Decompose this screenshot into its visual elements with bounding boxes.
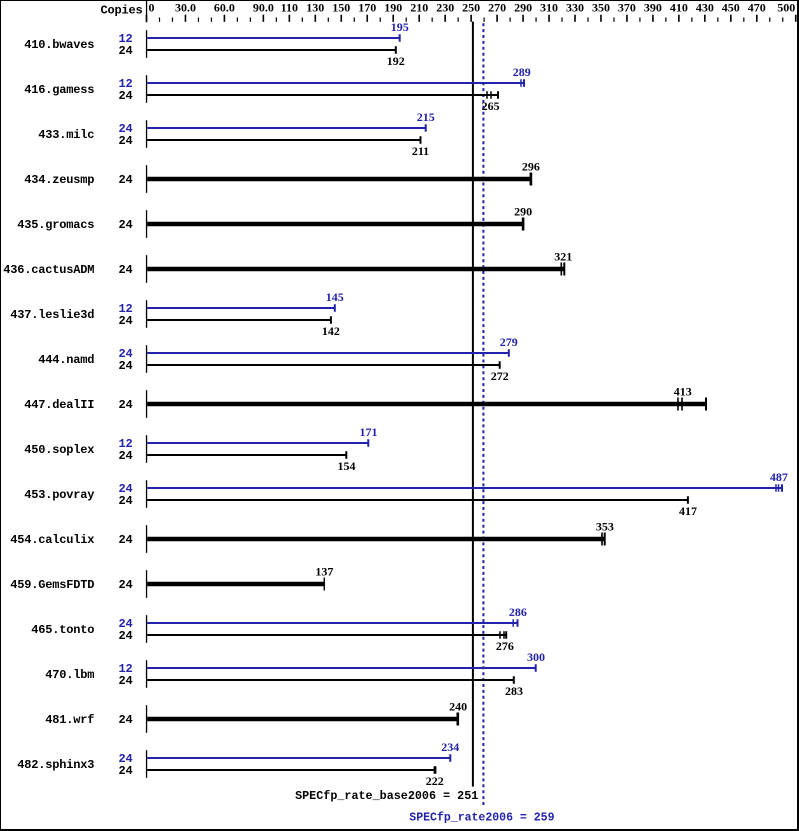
450.soplex copies label (base) [118, 449, 132, 463]
SPECfp_rate2006 = 259 dotted vertical reference line [482, 23, 484, 807]
svg-text:430: 430 [696, 1, 714, 15]
470.lbm base value label 283 [505, 684, 523, 698]
svg-text:276: 276 [496, 639, 514, 653]
416.gamess base bar (value 265) [147, 91, 499, 99]
svg-text:190: 190 [384, 1, 402, 15]
svg-text:417: 417 [679, 504, 697, 518]
444.namd peak value label 279 [500, 335, 518, 349]
453.povray base value label 417 [679, 504, 697, 518]
444.namd base bar (value 272) [147, 361, 501, 369]
435.gromacs copies label [118, 218, 132, 232]
svg-text:289: 289 [513, 65, 531, 79]
svg-text:24: 24 [118, 398, 132, 412]
Copies column header [100, 3, 142, 17]
410.bwaves base value label 192 [387, 54, 405, 68]
svg-text:487: 487 [770, 470, 788, 484]
svg-text:279: 279 [500, 335, 518, 349]
svg-text:416.gamess: 416.gamess [24, 83, 94, 97]
svg-text:350: 350 [592, 1, 610, 15]
svg-text:435.gromacs: 435.gromacs [17, 218, 94, 232]
svg-text:24: 24 [118, 263, 132, 277]
svg-text:24: 24 [118, 44, 132, 58]
svg-text:24: 24 [118, 629, 132, 643]
svg-text:390: 390 [644, 1, 662, 15]
436.cactusADM value label 321 [554, 250, 572, 264]
svg-text:450.soplex: 450.soplex [24, 443, 94, 457]
svg-text:482.sphinx3: 482.sphinx3 [17, 758, 94, 772]
svg-text:24: 24 [118, 494, 132, 508]
433.milc peak bar (value 215) [147, 124, 427, 132]
465.tonto peak bar (value 286) [147, 619, 518, 627]
svg-text:433.milc: 433.milc [38, 128, 94, 142]
410.bwaves peak value label 195 [391, 20, 409, 34]
465.tonto peak value label 286 [509, 605, 527, 619]
SPECfp_rate_base2006 total text [295, 789, 478, 803]
447.dealII base+peak bar (value 413) [147, 398, 707, 411]
svg-text:370: 370 [618, 1, 636, 15]
svg-text:142: 142 [322, 324, 340, 338]
410.bwaves copies label (peak) [118, 32, 132, 46]
benchmark label 435.gromacs [17, 218, 94, 232]
470.lbm copies label (peak) [118, 662, 132, 676]
433.milc start bracket [146, 120, 147, 148]
benchmark label 459.GemsFDTD [10, 578, 94, 592]
470.lbm peak value label 300 [527, 650, 545, 664]
benchmark label 482.sphinx3 [17, 758, 94, 772]
svg-text:450: 450 [722, 1, 740, 15]
svg-text:470.lbm: 470.lbm [45, 668, 94, 682]
axis zero tick (value 0) [146, 1, 147, 22]
470.lbm base bar (value 283) [147, 676, 515, 684]
svg-text:250: 250 [462, 1, 480, 15]
svg-text:24: 24 [118, 314, 132, 328]
465.tonto base bar (value 276) [147, 631, 507, 639]
svg-text:230: 230 [436, 1, 454, 15]
444.namd copies label (base) [118, 359, 132, 373]
410.bwaves base bar (value 192) [147, 46, 397, 54]
svg-text:171: 171 [360, 425, 378, 439]
444.namd base value label 272 [491, 369, 509, 383]
svg-text:137: 137 [315, 565, 333, 579]
svg-text:215: 215 [417, 110, 435, 124]
benchmark label 436.cactusADM [3, 263, 94, 277]
436.cactusADM start bracket [146, 255, 147, 283]
svg-text:434.zeusmp: 434.zeusmp [24, 173, 94, 187]
svg-text:145: 145 [326, 290, 344, 304]
svg-text:470: 470 [748, 1, 766, 15]
482.sphinx3 start bracket [146, 750, 147, 778]
svg-text:60.0: 60.0 [214, 1, 235, 15]
410.bwaves copies label (base) [118, 44, 132, 58]
svg-text:24: 24 [118, 764, 132, 778]
435.gromacs base+peak bar (value 290) [147, 218, 524, 231]
svg-text:130: 130 [306, 1, 324, 15]
453.povray base bar (value 417) [147, 496, 689, 504]
416.gamess peak bar (value 289) [147, 79, 525, 87]
410.bwaves peak bar (value 195) [147, 34, 401, 42]
454.calculix base+peak bar (value 353) [147, 533, 606, 546]
453.povray start bracket [146, 480, 147, 508]
444.namd start bracket [146, 345, 147, 373]
svg-text:465.tonto: 465.tonto [31, 623, 94, 637]
svg-text:154: 154 [338, 459, 356, 473]
svg-text:SPECfp_rate_base2006 = 251: SPECfp_rate_base2006 = 251 [295, 789, 478, 803]
benchmark label 470.lbm [45, 668, 94, 682]
459.GemsFDTD base+peak bar (value 137) [147, 578, 325, 591]
470.lbm copies label (base) [118, 674, 132, 688]
benchmark label 410.bwaves [24, 38, 94, 52]
435.gromacs start bracket [146, 210, 147, 238]
416.gamess start bracket [146, 75, 147, 103]
axis major tick marks and labels [146, 1, 797, 22]
436.cactusADM base+peak bar (value 321) [147, 263, 565, 276]
benchmark label 481.wrf [45, 713, 94, 727]
svg-text:24: 24 [118, 359, 132, 373]
465.tonto copies label (base) [118, 629, 132, 643]
svg-text:321: 321 [554, 250, 572, 264]
benchmark label 437.leslie3d [10, 308, 94, 322]
454.calculix start bracket [146, 525, 147, 553]
benchmark label 416.gamess [24, 83, 94, 97]
svg-text:222: 222 [426, 774, 444, 788]
benchmark label 454.calculix [10, 533, 94, 547]
433.milc peak value label 215 [417, 110, 435, 124]
481.wrf base+peak bar (value 240) [147, 713, 459, 726]
benchmark label 433.milc [38, 128, 94, 142]
svg-text:410.bwaves: 410.bwaves [24, 38, 94, 52]
svg-text:410: 410 [670, 1, 688, 15]
svg-text:454.calculix: 454.calculix [10, 533, 94, 547]
482.sphinx3 peak bar (value 234) [147, 754, 451, 762]
svg-text:24: 24 [118, 218, 132, 232]
450.soplex peak bar (value 171) [147, 439, 369, 447]
svg-text:90.0: 90.0 [253, 1, 274, 15]
434.zeusmp base+peak bar (value 296) [147, 173, 532, 186]
SPECfp_rate2006 total text [409, 810, 554, 824]
svg-text:0: 0 [149, 1, 155, 15]
416.gamess peak value label 289 [513, 65, 531, 79]
svg-text:211: 211 [412, 144, 429, 158]
svg-text:265: 265 [482, 99, 500, 113]
benchmark label 465.tonto [31, 623, 94, 637]
453.povray peak bar (value 487) [147, 484, 783, 492]
437.leslie3d copies label (base) [118, 314, 132, 328]
482.sphinx3 copies label (base) [118, 764, 132, 778]
svg-text:Copies: Copies [100, 3, 142, 17]
svg-text:24: 24 [118, 674, 132, 688]
svg-text:296: 296 [522, 160, 540, 174]
453.povray copies label (peak) [118, 482, 132, 496]
437.leslie3d base value label 142 [322, 324, 340, 338]
435.gromacs value label 290 [514, 205, 532, 219]
444.namd peak bar (value 279) [147, 349, 510, 357]
450.soplex copies label (peak) [118, 437, 132, 451]
450.soplex start bracket [146, 435, 147, 463]
433.milc copies label (peak) [118, 122, 132, 136]
svg-text:30.0: 30.0 [175, 1, 196, 15]
svg-text:500: 500 [777, 1, 795, 15]
axis minor tick marks [159, 18, 783, 22]
svg-text:24: 24 [118, 578, 132, 592]
447.dealII copies label [118, 398, 132, 412]
434.zeusmp value label 296 [522, 160, 540, 174]
benchmark label 450.soplex [24, 443, 94, 457]
svg-text:24: 24 [118, 89, 132, 103]
453.povray peak value label 487 [770, 470, 788, 484]
svg-text:24: 24 [118, 449, 132, 463]
svg-text:210: 210 [410, 1, 428, 15]
416.gamess base value label 265 [482, 99, 500, 113]
svg-text:24: 24 [118, 173, 132, 187]
benchmark label 447.dealII [24, 398, 94, 412]
svg-text:240: 240 [449, 700, 467, 714]
454.calculix value label 353 [596, 520, 614, 534]
482.sphinx3 base bar (value 222) [147, 766, 436, 774]
benchmark label 444.namd [38, 353, 94, 367]
SPECfp_rate_base2006 = 251 vertical reference line [472, 22, 474, 787]
482.sphinx3 base value label 222 [426, 774, 444, 788]
450.soplex peak value label 171 [360, 425, 378, 439]
433.milc base value label 211 [412, 144, 429, 158]
svg-text:310: 310 [540, 1, 558, 15]
437.leslie3d base bar (value 142) [147, 316, 332, 324]
433.milc base bar (value 211) [147, 136, 421, 144]
437.leslie3d peak bar (value 145) [147, 304, 336, 312]
svg-text:234: 234 [441, 740, 459, 754]
434.zeusmp start bracket [146, 165, 147, 193]
459.GemsFDTD copies label [118, 578, 132, 592]
svg-text:150: 150 [332, 1, 350, 15]
465.tonto base value label 276 [496, 639, 514, 653]
482.sphinx3 peak value label 234 [441, 740, 459, 754]
410.bwaves start bracket [146, 30, 147, 58]
svg-text:283: 283 [505, 684, 523, 698]
svg-text:270: 270 [488, 1, 506, 15]
benchmark label 453.povray [24, 488, 94, 502]
481.wrf copies label [118, 713, 132, 727]
svg-text:286: 286 [509, 605, 527, 619]
444.namd copies label (peak) [118, 347, 132, 361]
447.dealII value label 413 [674, 385, 692, 399]
svg-text:330: 330 [566, 1, 584, 15]
450.soplex base bar (value 154) [147, 451, 347, 459]
svg-text:24: 24 [118, 134, 132, 148]
svg-text:353: 353 [596, 520, 614, 534]
svg-text:24: 24 [118, 533, 132, 547]
svg-text:447.dealII: 447.dealII [24, 398, 94, 412]
482.sphinx3 copies label (peak) [118, 752, 132, 766]
svg-text:436.cactusADM: 436.cactusADM [3, 263, 94, 277]
450.soplex base value label 154 [338, 459, 356, 473]
svg-text:481.wrf: 481.wrf [45, 713, 94, 727]
svg-text:195: 195 [391, 20, 409, 34]
453.povray copies label (base) [118, 494, 132, 508]
470.lbm start bracket [146, 660, 147, 688]
svg-text:SPECfp_rate2006 = 259: SPECfp_rate2006 = 259 [409, 810, 554, 824]
416.gamess copies label (peak) [118, 77, 132, 91]
465.tonto start bracket [146, 615, 147, 643]
svg-text:272: 272 [491, 369, 509, 383]
svg-text:290: 290 [514, 1, 532, 15]
437.leslie3d start bracket [146, 300, 147, 328]
459.GemsFDTD value label 137 [315, 565, 333, 579]
470.lbm peak bar (value 300) [147, 664, 537, 672]
svg-text:192: 192 [387, 54, 405, 68]
svg-text:413: 413 [674, 385, 692, 399]
svg-text:459.GemsFDTD: 459.GemsFDTD [10, 578, 94, 592]
447.dealII start bracket [146, 390, 147, 418]
459.GemsFDTD start bracket [146, 570, 147, 598]
svg-text:24: 24 [118, 713, 132, 727]
465.tonto copies label (peak) [118, 617, 132, 631]
svg-text:110: 110 [281, 1, 298, 15]
svg-text:300: 300 [527, 650, 545, 664]
434.zeusmp copies label [118, 173, 132, 187]
svg-text:437.leslie3d: 437.leslie3d [10, 308, 94, 322]
benchmark label 434.zeusmp [24, 173, 94, 187]
svg-text:290: 290 [514, 205, 532, 219]
437.leslie3d peak value label 145 [326, 290, 344, 304]
svg-text:170: 170 [358, 1, 376, 15]
436.cactusADM copies label [118, 263, 132, 277]
481.wrf start bracket [146, 705, 147, 733]
416.gamess copies label (base) [118, 89, 132, 103]
svg-text:453.povray: 453.povray [24, 488, 94, 502]
svg-text:444.namd: 444.namd [38, 353, 94, 367]
433.milc copies label (base) [118, 134, 132, 148]
454.calculix copies label [118, 533, 132, 547]
481.wrf value label 240 [449, 700, 467, 714]
437.leslie3d copies label (peak) [118, 302, 132, 316]
